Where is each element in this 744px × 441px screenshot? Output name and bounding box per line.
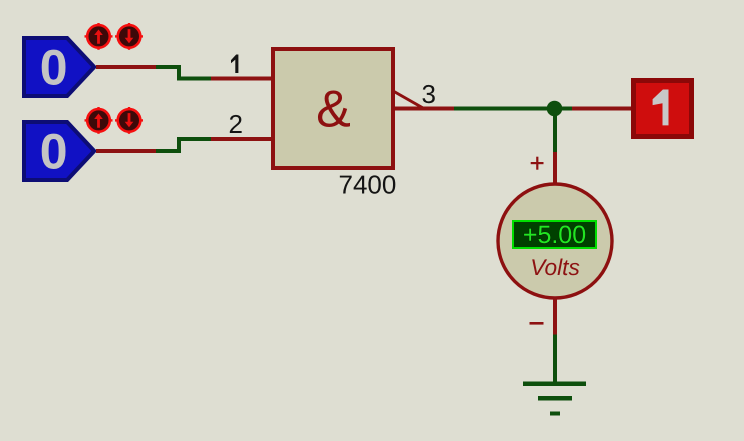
ground symbol [523, 382, 586, 416]
junction dot [547, 101, 563, 117]
pin of input D1 [96, 65, 156, 69]
minus label of voltmeter [530, 322, 544, 325]
wire: junction down to voltmeter + terminal [553, 109, 557, 185]
plus label of voltmeter [531, 157, 544, 170]
wire: voltmeter - terminal down to ground [553, 297, 557, 382]
logic input D1 up-button [85, 23, 113, 50]
wire: gate output to junction [454, 107, 548, 111]
logic probe (output indicator, value 1) [631, 78, 694, 139]
gate U1 pin 2 [211, 137, 273, 141]
svg-text:2: 2 [229, 109, 243, 139]
logic input D1 (logicstate, value 0) [22, 36, 97, 98]
voltmeter body [498, 184, 612, 298]
logic input D2 (logicstate, value 0) [22, 120, 97, 182]
svg-text:0: 0 [40, 123, 68, 179]
svg-text:7400: 7400 [339, 169, 397, 199]
svg-text:&: & [316, 80, 351, 138]
gate U1 inversion slash at output [394, 92, 423, 109]
wire: input D1 to gate pin 1 [156, 65, 211, 81]
svg-text:0: 0 [40, 39, 68, 95]
gate U1 pin 1 [211, 77, 273, 81]
svg-text:3: 3 [422, 79, 436, 109]
wire: junction to probe [562, 107, 632, 111]
logic input D2 down-button [115, 107, 143, 134]
svg-text:+5.00: +5.00 [523, 221, 586, 249]
logic input D1 down-button [115, 23, 143, 50]
svg-text:Volts: Volts [530, 254, 580, 280]
pin of input D2 [96, 149, 156, 153]
gate U1 output pin 3 [395, 107, 454, 111]
voltmeter LCD display [513, 221, 596, 249]
pin number 1 [231, 55, 238, 74]
logic input D2 up-button [85, 107, 113, 134]
NAND gate U1 (7400) body [273, 49, 393, 168]
wire: input D2 to gate pin 2 [156, 137, 211, 153]
